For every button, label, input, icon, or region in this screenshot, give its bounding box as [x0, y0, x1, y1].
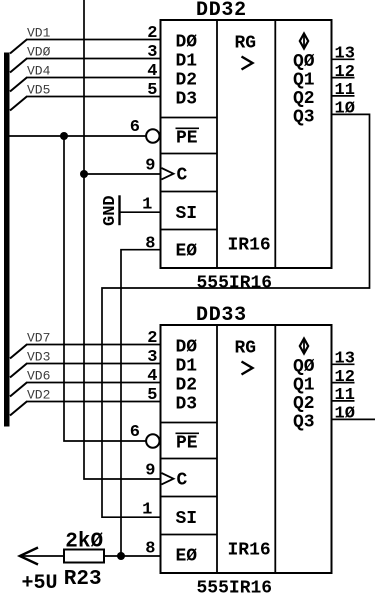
svg-text:11: 11	[335, 386, 355, 405]
junction node on PE wire	[60, 132, 68, 140]
svg-text:DD33: DD33	[196, 304, 247, 327]
wire input pin 2 (VD1)	[10, 40, 160, 54]
svg-text:1: 1	[142, 500, 152, 519]
svg-text:Q2: Q2	[293, 394, 315, 414]
wire +5U supply to E0 pins	[20, 555, 161, 557]
svg-text:VD5: VD5	[27, 83, 50, 98]
svg-text:555IR16: 555IR16	[197, 578, 273, 598]
wire input pin 4 (VD6)	[10, 383, 160, 397]
svg-text:13: 13	[335, 45, 355, 64]
wire input pin 5 (VD5)	[10, 97, 160, 111]
svg-text:VD3: VD3	[27, 350, 50, 365]
wire input pin 4 (VD4)	[10, 78, 160, 92]
junction node on C wire	[80, 170, 88, 178]
svg-text:PE: PE	[176, 129, 198, 149]
DD33 tri-state output symbol	[300, 339, 308, 354]
svg-text:C: C	[177, 166, 188, 186]
svg-text:DØ: DØ	[176, 338, 198, 358]
wire input pin 2 (VD7)	[10, 345, 160, 359]
svg-text:4: 4	[147, 367, 157, 386]
svg-text:GND: GND	[101, 195, 120, 226]
svg-text:Q2: Q2	[293, 89, 315, 109]
wire output pin stub 13	[332, 58, 355, 60]
DD32 shift symbol	[242, 57, 253, 70]
svg-text:PE: PE	[176, 434, 198, 454]
wire DD32 Q3 pin 10 wrap to DD33 SI pin 1	[102, 114, 370, 517]
cable bus	[4, 53, 10, 427]
wire input pin 3 (VD3)	[10, 364, 160, 378]
svg-text:EØ: EØ	[176, 242, 198, 262]
svg-text:D3: D3	[176, 90, 198, 110]
svg-text:6: 6	[130, 423, 140, 442]
svg-text:5: 5	[147, 386, 157, 405]
ground symbol GND	[120, 195, 161, 225]
svg-text:12: 12	[335, 368, 355, 387]
svg-text:8: 8	[145, 235, 155, 254]
svg-text:3: 3	[147, 348, 157, 367]
svg-text:VD1: VD1	[27, 26, 51, 41]
wire DD32 PE to DD33 PE	[64, 136, 146, 441]
svg-text:DD32: DD32	[196, 0, 247, 22]
svg-text:EØ: EØ	[176, 547, 198, 567]
svg-text:12: 12	[335, 63, 355, 82]
svg-text:D1: D1	[176, 357, 198, 377]
svg-text:3: 3	[147, 43, 157, 62]
svg-text:D1: D1	[176, 52, 198, 72]
svg-text:QØ: QØ	[293, 357, 315, 377]
svg-text:VDØ: VDØ	[27, 45, 51, 60]
svg-text:D2: D2	[176, 376, 198, 396]
svg-text:4: 4	[147, 62, 157, 81]
svg-text:IR16: IR16	[228, 236, 271, 256]
svg-text:D2: D2	[176, 71, 198, 91]
svg-text:2kØ: 2kØ	[65, 530, 103, 553]
svg-text:C: C	[177, 471, 188, 491]
svg-text:1Ø: 1Ø	[335, 405, 355, 424]
register DD33 body	[161, 325, 332, 573]
svg-text:VD4: VD4	[27, 64, 51, 79]
wire output pin stub 11	[332, 95, 355, 97]
svg-text:RG: RG	[235, 34, 257, 54]
wire C pin 9	[84, 173, 161, 175]
svg-text:D3: D3	[176, 395, 198, 415]
svg-text:Q1: Q1	[293, 376, 315, 396]
DD32 tri-state output symbol	[300, 34, 308, 49]
svg-text:9: 9	[145, 462, 155, 481]
svg-text:11: 11	[335, 81, 355, 100]
svg-text:VD6: VD6	[27, 369, 50, 384]
wire output pin stub 13	[332, 363, 355, 365]
DD32 dynamic input triangle	[162, 168, 174, 179]
DD32 PE inversion bubble pin 6	[146, 129, 159, 142]
svg-text:5: 5	[147, 81, 157, 100]
DD33 PE inversion bubble pin 6	[146, 434, 159, 447]
wire PE pin 6 from bus	[9, 135, 146, 137]
svg-text:2: 2	[147, 24, 157, 43]
wire input pin 5 (VD2)	[10, 402, 160, 416]
svg-text:RG: RG	[235, 339, 257, 359]
wire clock net to both C pins	[84, 0, 161, 479]
svg-text:+5U: +5U	[22, 572, 58, 595]
wire input pin 3 (VD0)	[10, 59, 160, 73]
svg-text:Q1: Q1	[293, 71, 315, 91]
wire DD32 E0 pin 8 down to pull-up net	[121, 250, 161, 556]
svg-text:555IR16: 555IR16	[197, 273, 273, 293]
wire output pin stub 12	[332, 382, 355, 384]
svg-text:QØ: QØ	[293, 52, 315, 72]
DD32 PE label with overline	[176, 128, 200, 148]
svg-text:SI: SI	[176, 204, 198, 224]
register DD32 body	[161, 20, 332, 268]
svg-text:VD7: VD7	[27, 331, 50, 346]
wire DD33 Q3 pin 10 to edge	[332, 418, 375, 420]
wire output pin stub 11	[332, 400, 355, 402]
DD33 shift symbol	[242, 362, 253, 375]
svg-text:9: 9	[145, 157, 155, 176]
svg-text:2: 2	[147, 329, 157, 348]
resistor R23	[64, 550, 104, 563]
svg-text:Q3: Q3	[293, 108, 315, 128]
wire output pin stub 12	[332, 77, 355, 79]
svg-text:Q3: Q3	[293, 413, 315, 433]
DD33 PE label with overline	[176, 433, 200, 453]
svg-text:1Ø: 1Ø	[335, 100, 355, 119]
junction node E0 net	[117, 552, 125, 560]
svg-text:SI: SI	[176, 509, 198, 529]
svg-text:6: 6	[130, 118, 140, 137]
svg-text:DØ: DØ	[176, 33, 198, 53]
svg-text:13: 13	[335, 350, 355, 369]
svg-text:VD2: VD2	[27, 388, 50, 403]
svg-text:R23: R23	[64, 568, 102, 591]
svg-text:IR16: IR16	[228, 541, 271, 561]
supply arrow	[20, 548, 38, 565]
DD33 dynamic input triangle	[162, 473, 174, 484]
